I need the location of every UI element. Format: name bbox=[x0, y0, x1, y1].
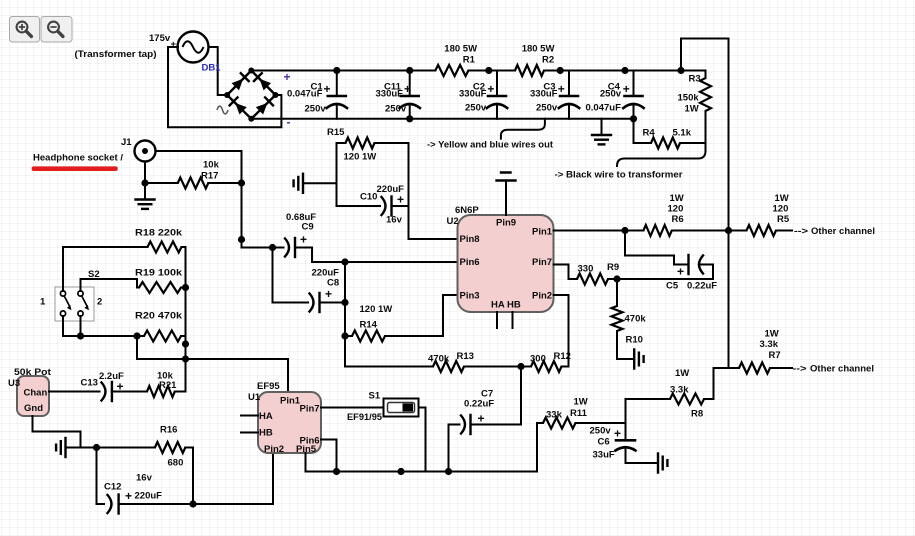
svg-text:Pin2: Pin2 bbox=[532, 291, 552, 302]
wire bbox=[273, 248, 309, 303]
wire bbox=[295, 248, 458, 263]
svg-text:+: + bbox=[677, 265, 684, 279]
resistor R20 bbox=[135, 311, 183, 342]
svg-text:Other channel: Other channel bbox=[811, 226, 875, 237]
svg-text:+: + bbox=[171, 39, 177, 50]
svg-text:EF95: EF95 bbox=[257, 381, 280, 392]
svg-text:EF91/95: EF91/95 bbox=[347, 412, 383, 423]
switch S1 bbox=[347, 391, 419, 424]
svg-text:330: 330 bbox=[578, 264, 594, 275]
wire bbox=[554, 230, 644, 232]
capacitor C10 bbox=[360, 184, 404, 226]
capacitor C1 bbox=[287, 71, 347, 119]
ground bbox=[294, 174, 337, 193]
resistor R5 bbox=[747, 193, 790, 236]
capacitor C4 bbox=[586, 71, 644, 119]
svg-text:+: + bbox=[558, 82, 565, 96]
wire bbox=[554, 265, 578, 280]
svg-text:250v: 250v bbox=[536, 103, 558, 114]
svg-text:Headphone socket /: Headphone socket / bbox=[33, 153, 123, 164]
AC source 175v (transformer tap) bbox=[75, 32, 209, 63]
wire bbox=[705, 111, 707, 143]
ground bbox=[136, 183, 155, 209]
svg-text:16v: 16v bbox=[136, 473, 153, 484]
svg-text:HB: HB bbox=[259, 428, 273, 439]
wire bbox=[63, 247, 148, 291]
svg-text:C10: C10 bbox=[360, 192, 377, 203]
resistor R6 bbox=[643, 193, 683, 236]
wire bbox=[33, 416, 81, 448]
svg-text:250v: 250v bbox=[305, 103, 327, 114]
wire bbox=[449, 425, 460, 472]
wire bbox=[63, 335, 144, 337]
capacitor C9 bbox=[285, 212, 316, 257]
switch S2 bbox=[40, 269, 102, 321]
svg-text:R4: R4 bbox=[643, 128, 656, 139]
svg-text:R15: R15 bbox=[327, 127, 345, 138]
svg-text:S1: S1 bbox=[369, 391, 381, 402]
svg-text:+: + bbox=[614, 427, 621, 441]
wire bbox=[345, 335, 352, 337]
svg-text:680: 680 bbox=[168, 458, 184, 469]
wire bbox=[701, 265, 713, 280]
svg-text:R7: R7 bbox=[769, 350, 781, 361]
capacitor C5 bbox=[666, 255, 717, 292]
svg-text:Pin9: Pin9 bbox=[496, 218, 516, 229]
resistor R16 bbox=[155, 425, 185, 469]
wire bbox=[97, 447, 155, 449]
svg-text:Chan: Chan bbox=[24, 388, 48, 399]
svg-text:300: 300 bbox=[530, 354, 546, 365]
ground bbox=[592, 119, 611, 145]
wire bbox=[181, 287, 186, 289]
wire bbox=[704, 368, 739, 399]
svg-text:+: + bbox=[397, 193, 404, 207]
svg-text:250v: 250v bbox=[590, 426, 612, 437]
capacitor C7 bbox=[461, 389, 494, 435]
svg-text:C12: C12 bbox=[104, 482, 121, 493]
svg-text:C6: C6 bbox=[598, 437, 610, 448]
wire bbox=[273, 247, 284, 249]
svg-text:R14: R14 bbox=[360, 320, 378, 331]
wire bbox=[680, 142, 706, 144]
capacitor C13 bbox=[81, 371, 125, 401]
wire bbox=[544, 71, 706, 79]
svg-text:R21: R21 bbox=[159, 380, 177, 391]
svg-text:R3: R3 bbox=[689, 74, 701, 85]
potentiometer U3 bbox=[8, 367, 52, 416]
svg-text:180 5W: 180 5W bbox=[522, 44, 555, 55]
svg-text:R20 470k: R20 470k bbox=[135, 311, 183, 322]
wire bbox=[144, 162, 146, 184]
svg-text:470k: 470k bbox=[625, 314, 647, 325]
svg-text:R2: R2 bbox=[542, 55, 554, 66]
zoom-out button bbox=[41, 17, 72, 43]
resistor R8 bbox=[670, 368, 704, 420]
svg-text:Gnd: Gnd bbox=[24, 403, 43, 414]
svg-text:3.3k: 3.3k bbox=[760, 339, 779, 350]
svg-text:+: + bbox=[478, 412, 485, 426]
wire bbox=[62, 316, 64, 336]
capacitor C3 bbox=[530, 71, 579, 119]
svg-text:-> Yellow and blue wires out: -> Yellow and blue wires out bbox=[427, 140, 554, 151]
svg-text:120 1W: 120 1W bbox=[360, 304, 393, 315]
capacitor C2 bbox=[459, 71, 507, 119]
wire bbox=[321, 407, 384, 409]
svg-text:0.22uF: 0.22uF bbox=[464, 399, 494, 410]
resistor R11 bbox=[543, 397, 588, 429]
capacitor C8 bbox=[310, 268, 340, 313]
wire bbox=[181, 335, 186, 337]
wire to transformer bbox=[555, 143, 706, 181]
wire bbox=[672, 230, 747, 232]
svg-text:Pin6: Pin6 bbox=[460, 257, 480, 268]
svg-text:50k Pot: 50k Pot bbox=[14, 367, 52, 378]
wire bbox=[209, 47, 228, 95]
jack J1 bbox=[121, 137, 156, 162]
svg-text:-->: --> bbox=[793, 364, 808, 375]
wire bbox=[776, 230, 792, 232]
wire bbox=[119, 453, 273, 504]
svg-text:HA: HA bbox=[259, 411, 273, 422]
svg-text:R11: R11 bbox=[570, 408, 588, 419]
resistor R18 bbox=[135, 228, 183, 253]
svg-text:Pin3: Pin3 bbox=[460, 291, 480, 302]
resistor R19 bbox=[135, 268, 183, 294]
svg-text:250v: 250v bbox=[465, 103, 487, 114]
svg-text:0.22uF: 0.22uF bbox=[687, 281, 717, 292]
svg-text:C9: C9 bbox=[302, 222, 314, 233]
svg-text:10k: 10k bbox=[203, 160, 220, 171]
wire (U2 heater stubs) bbox=[496, 312, 498, 328]
wire bbox=[80, 316, 82, 336]
wire (yellow/blue out) bbox=[427, 119, 554, 151]
svg-text:120 1W: 120 1W bbox=[344, 152, 377, 163]
wire bbox=[770, 367, 792, 369]
wire bbox=[345, 262, 433, 367]
svg-text:Pin2: Pin2 bbox=[264, 444, 284, 455]
svg-text:1W: 1W bbox=[775, 193, 789, 204]
wire bbox=[392, 205, 409, 207]
svg-text:120: 120 bbox=[773, 204, 789, 215]
wire bbox=[616, 279, 618, 306]
resistor R14 bbox=[352, 304, 392, 342]
wire (U1 heater stubs) bbox=[241, 415, 258, 417]
svg-text:DB1: DB1 bbox=[202, 63, 222, 74]
wire bbox=[554, 295, 569, 367]
svg-text:+: + bbox=[300, 233, 307, 247]
wire bbox=[81, 279, 140, 291]
svg-text:R1: R1 bbox=[463, 55, 476, 66]
svg-text:-> Black wire to transformer: -> Black wire to transformer bbox=[555, 170, 683, 181]
resistor R3 bbox=[678, 74, 712, 115]
svg-text:330uF: 330uF bbox=[376, 89, 404, 100]
svg-text:R8: R8 bbox=[691, 409, 703, 420]
wire bbox=[321, 440, 337, 472]
svg-text:33uF: 33uF bbox=[593, 450, 615, 461]
svg-text:R5: R5 bbox=[777, 214, 790, 225]
ground bbox=[658, 454, 667, 473]
wire bbox=[49, 391, 100, 393]
wire bbox=[464, 366, 531, 368]
wire bbox=[251, 70, 435, 72]
svg-text:250v: 250v bbox=[600, 89, 622, 100]
wire bbox=[97, 448, 105, 505]
bridge rectifier DB1 bbox=[202, 63, 291, 130]
wire bbox=[137, 336, 288, 392]
wire bbox=[617, 331, 634, 359]
wire bbox=[385, 295, 458, 336]
wire bbox=[112, 391, 147, 393]
capacitor C6 bbox=[590, 426, 658, 464]
svg-text:+: + bbox=[325, 287, 332, 301]
svg-text:3.3k: 3.3k bbox=[670, 385, 689, 396]
resistor R10 bbox=[612, 306, 647, 346]
svg-text:Pin7: Pin7 bbox=[532, 257, 552, 268]
resistor R21 bbox=[147, 371, 177, 398]
wire bbox=[576, 422, 626, 424]
wire bbox=[320, 302, 346, 304]
svg-text:120: 120 bbox=[668, 204, 684, 215]
svg-text:U1: U1 bbox=[248, 392, 261, 403]
svg-text:R9: R9 bbox=[607, 262, 619, 273]
resistor R4 bbox=[643, 128, 692, 149]
svg-text:+: + bbox=[623, 82, 630, 96]
tube U1 EF95 bbox=[248, 381, 321, 455]
wire bbox=[419, 408, 426, 472]
svg-text:1W: 1W bbox=[675, 368, 689, 379]
svg-text:R19 100k: R19 100k bbox=[135, 268, 183, 279]
headphone socket note bbox=[32, 153, 124, 172]
resistor R9 bbox=[577, 262, 619, 285]
svg-text:C13: C13 bbox=[81, 378, 98, 389]
wire bbox=[626, 399, 671, 440]
svg-text:+: + bbox=[324, 82, 331, 96]
ground bbox=[56, 438, 96, 457]
wire bbox=[634, 119, 652, 143]
wire bbox=[208, 182, 241, 184]
svg-text:Pin1: Pin1 bbox=[532, 227, 553, 238]
resistor R13 bbox=[428, 351, 474, 372]
ground (U2 pin9) bbox=[497, 173, 516, 216]
capacitor C12 bbox=[104, 473, 162, 514]
svg-text:HA HB: HA HB bbox=[491, 300, 521, 311]
resistor R7 bbox=[739, 329, 781, 374]
wire bbox=[681, 39, 729, 369]
ground bbox=[634, 350, 643, 369]
svg-text:470k: 470k bbox=[428, 354, 450, 365]
wire bbox=[242, 151, 273, 248]
svg-text:1W: 1W bbox=[765, 329, 779, 340]
svg-text:0.047uF: 0.047uF bbox=[586, 103, 622, 114]
svg-text:150k: 150k bbox=[678, 93, 700, 104]
resistor R12 bbox=[530, 351, 571, 372]
wire bbox=[625, 231, 689, 265]
svg-text:1W: 1W bbox=[670, 193, 684, 204]
svg-text:1W: 1W bbox=[574, 397, 588, 408]
svg-text:+: + bbox=[125, 489, 132, 503]
capacitor C11 bbox=[376, 71, 420, 119]
svg-text:Pin1: Pin1 bbox=[280, 396, 301, 407]
svg-text:U3: U3 bbox=[8, 378, 20, 389]
wire bbox=[337, 143, 381, 206]
svg-text:R13: R13 bbox=[457, 351, 474, 362]
svg-text:2: 2 bbox=[97, 297, 102, 308]
resistor R1 bbox=[435, 44, 477, 77]
resistor R17 bbox=[178, 160, 220, 189]
svg-text:16v: 16v bbox=[386, 215, 403, 226]
svg-text:R10: R10 bbox=[626, 335, 643, 346]
svg-text:175v: 175v bbox=[149, 33, 171, 44]
wire bbox=[471, 367, 522, 425]
wire bbox=[168, 47, 281, 127]
svg-text:Pin8: Pin8 bbox=[460, 234, 480, 245]
resistor R2 bbox=[515, 44, 554, 77]
svg-text:180 5W: 180 5W bbox=[444, 44, 477, 55]
wire bbox=[156, 150, 242, 152]
svg-text:33k: 33k bbox=[546, 410, 563, 421]
svg-text:-: - bbox=[287, 115, 291, 129]
svg-text:250v: 250v bbox=[385, 103, 407, 114]
wire bbox=[145, 182, 178, 184]
svg-text:6N6P: 6N6P bbox=[455, 205, 479, 216]
svg-text:C5: C5 bbox=[666, 281, 679, 292]
svg-text:J1: J1 bbox=[121, 137, 132, 148]
svg-text:R6: R6 bbox=[672, 214, 684, 225]
tube U2 6N6P bbox=[447, 205, 554, 312]
svg-text:1: 1 bbox=[40, 297, 46, 308]
svg-text:220uF: 220uF bbox=[135, 491, 163, 502]
svg-text:+: + bbox=[284, 70, 291, 84]
svg-text:+: + bbox=[404, 82, 411, 96]
svg-text:U2: U2 bbox=[447, 216, 459, 227]
svg-text:-->: --> bbox=[794, 226, 809, 237]
svg-text:330uF: 330uF bbox=[530, 89, 558, 100]
svg-text:330uF: 330uF bbox=[459, 89, 487, 100]
wire bbox=[185, 448, 193, 505]
wire bbox=[468, 70, 515, 72]
resistor R15 bbox=[327, 127, 376, 163]
wire bbox=[375, 143, 458, 239]
zoom-in button bbox=[10, 17, 40, 43]
svg-text:(Transformer tap): (Transformer tap) bbox=[75, 49, 157, 60]
svg-text:R16: R16 bbox=[160, 425, 177, 436]
wire bbox=[608, 278, 713, 280]
svg-text:Other channel: Other channel bbox=[810, 364, 874, 375]
svg-text:0.047uF: 0.047uF bbox=[287, 89, 323, 100]
svg-text:R18 220k: R18 220k bbox=[135, 228, 183, 239]
svg-text:+: + bbox=[487, 82, 494, 96]
wire bbox=[306, 423, 544, 472]
wire bbox=[175, 247, 186, 392]
wire bbox=[251, 118, 633, 120]
svg-text:5.1k: 5.1k bbox=[673, 128, 692, 139]
svg-text:1W: 1W bbox=[685, 104, 699, 115]
svg-text:R17: R17 bbox=[201, 171, 218, 182]
svg-text:Pin7: Pin7 bbox=[300, 404, 320, 415]
